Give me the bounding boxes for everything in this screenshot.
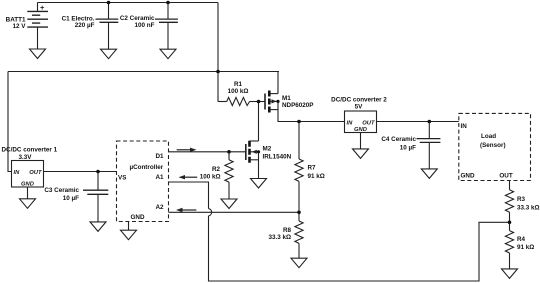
svg-text:91 kΩ: 91 kΩ xyxy=(517,244,534,251)
svg-text:220 µF: 220 µF xyxy=(75,22,95,29)
svg-text:OUT: OUT xyxy=(29,170,42,176)
svg-text:R2: R2 xyxy=(212,166,221,173)
svg-text:100 nF: 100 nF xyxy=(135,22,155,29)
svg-text:33.3 kΩ: 33.3 kΩ xyxy=(268,234,291,241)
svg-text:+: + xyxy=(40,3,45,12)
svg-text:100 kΩ: 100 kΩ xyxy=(228,88,249,95)
svg-text:DC/DC converter 2: DC/DC converter 2 xyxy=(331,96,387,103)
svg-text:5V: 5V xyxy=(355,103,364,110)
svg-text:100 kΩ: 100 kΩ xyxy=(200,173,221,180)
svg-text:12 V: 12 V xyxy=(13,23,27,30)
svg-text:GND: GND xyxy=(461,173,475,180)
svg-text:M2: M2 xyxy=(263,145,272,152)
svg-text:IN: IN xyxy=(347,121,354,127)
svg-text:A1: A1 xyxy=(155,174,164,181)
svg-text:Load: Load xyxy=(481,133,496,140)
svg-text:R8: R8 xyxy=(283,227,292,234)
svg-text:GND: GND xyxy=(354,127,368,133)
svg-text:3.3V: 3.3V xyxy=(19,154,33,161)
svg-text:OUT: OUT xyxy=(499,173,512,180)
svg-text:33.3 kΩ: 33.3 kΩ xyxy=(517,204,540,211)
svg-text:DC/DC converter 1: DC/DC converter 1 xyxy=(2,147,58,154)
svg-text:(Sensor): (Sensor) xyxy=(480,142,506,149)
svg-text:GND: GND xyxy=(131,214,145,221)
svg-text:R7: R7 xyxy=(308,164,317,171)
svg-text:VS: VS xyxy=(118,174,126,181)
svg-text:R3: R3 xyxy=(517,196,526,203)
svg-text:IRL1540N: IRL1540N xyxy=(263,154,292,161)
svg-text:10 µF: 10 µF xyxy=(63,195,79,202)
svg-text:R1: R1 xyxy=(234,81,243,88)
svg-text:NDP6020P: NDP6020P xyxy=(282,102,314,109)
svg-text:R4: R4 xyxy=(517,236,526,243)
svg-text:A2: A2 xyxy=(155,204,164,211)
svg-text:OUT: OUT xyxy=(362,121,375,127)
svg-text:IN: IN xyxy=(14,170,21,176)
svg-text:C3 Ceramic: C3 Ceramic xyxy=(44,187,79,194)
svg-text:GND: GND xyxy=(21,182,35,188)
svg-text:91 kΩ: 91 kΩ xyxy=(308,173,325,180)
svg-text:IN: IN xyxy=(461,123,468,130)
svg-text:D1: D1 xyxy=(155,153,164,160)
svg-text:10 µF: 10 µF xyxy=(400,145,416,152)
svg-text:µController: µController xyxy=(129,164,163,171)
svg-text:C4 Ceramic: C4 Ceramic xyxy=(381,136,416,143)
